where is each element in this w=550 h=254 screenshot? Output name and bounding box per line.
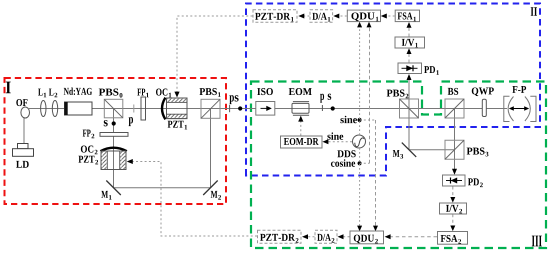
control line cosine up to QDU1 (second ref) bbox=[367, 22, 372, 164]
control line PZT-DR2 to PZT2 bbox=[127, 159, 257, 236]
node cosine (bottom tap) bbox=[358, 161, 362, 165]
laser diode LD bbox=[13, 144, 34, 157]
dashed frame box II (blue) bbox=[246, 4, 540, 176]
dashed frame box III (green) bbox=[251, 82, 546, 249]
label I bbox=[6, 82, 11, 94]
wire: beam M2 up to PBS1 bbox=[210, 109, 212, 188]
fiber coil OF bbox=[21, 107, 30, 118]
polarizing splitter PBS1 bbox=[201, 99, 220, 118]
etalon FP2 bbox=[100, 133, 128, 137]
control line QDU2 to D/A2 bbox=[338, 234, 350, 239]
converter D/A1 bbox=[310, 10, 333, 22]
mirror M2 bbox=[203, 181, 218, 196]
amplifier I/V2 bbox=[440, 203, 467, 214]
polarization tick after PBS0 bbox=[133, 105, 135, 113]
lens L1 bbox=[41, 101, 46, 117]
demodulator QDU2 bbox=[350, 231, 384, 244]
control line FSA2 to QDU2 bbox=[385, 234, 437, 239]
polarizing splitter PBS2 bbox=[400, 99, 419, 118]
control line PD2 to I/V2 bbox=[450, 187, 455, 203]
quarter-wave plate QWP bbox=[482, 99, 486, 116]
wire jog sine tap bbox=[360, 119, 376, 121]
piezo actuator PZT2 bbox=[101, 151, 126, 170]
beam splitter BS bbox=[445, 99, 464, 118]
node dot after PBS1 bbox=[238, 106, 242, 110]
control line PD1 to I/V1 bbox=[407, 48, 412, 62]
driver EOM-DR bbox=[281, 136, 323, 148]
control line D/A1 to PZT-DR1 bbox=[298, 14, 309, 19]
wire: fiber down to LD bbox=[23, 116, 25, 144]
wire: M3 to PBS3 bbox=[409, 149, 455, 151]
converter D/A2 bbox=[315, 230, 337, 243]
node s (dot below PBS0) bbox=[112, 121, 116, 125]
control line I/V1 to FSA1 bbox=[407, 22, 412, 37]
control line FSA1 to QDU1 bbox=[381, 14, 395, 19]
oscillator DDS bbox=[353, 135, 366, 148]
control line I/V2 to FSA2 bbox=[450, 214, 455, 231]
output coupler OC1 bbox=[162, 98, 165, 120]
lens L2 bbox=[52, 101, 57, 117]
gain crystal Nd:YAG bbox=[65, 102, 93, 115]
control line EOM-DR to EOM bbox=[298, 116, 303, 136]
label II bbox=[531, 7, 537, 16]
driver PZT-DR2 bbox=[258, 230, 302, 243]
output coupler OC2 bbox=[100, 148, 126, 152]
control line D/A2 to PZT-DR2 bbox=[302, 234, 315, 239]
wire: s-beam down from PBS0 bbox=[113, 109, 115, 188]
control line PZT-DR1 to PZT1 bbox=[174, 16, 252, 98]
isolator ISO bbox=[256, 102, 275, 116]
demodulator QDU1 bbox=[347, 10, 380, 22]
mirror M1 bbox=[106, 181, 121, 196]
control line DDS cosine down to QDU2 bbox=[357, 148, 362, 231]
polarizing splitter PBS3 bbox=[445, 140, 464, 159]
wire: beam M1 to M2 bbox=[114, 187, 211, 189]
label sine (to EOM-DR) bbox=[327, 132, 343, 139]
wire: PBS2 up to PD1 bbox=[407, 74, 412, 109]
control line sine down to QDU2 (second ref) bbox=[373, 120, 378, 231]
polarizing splitter PBS0 bbox=[104, 99, 123, 118]
amplifier I/V1 bbox=[395, 37, 425, 48]
wire: PBS2 down to M3 bbox=[408, 109, 410, 150]
control line QDU1 to D/A1 bbox=[333, 14, 347, 19]
node sine (top tap) bbox=[358, 118, 362, 122]
piezo actuator PZT1 bbox=[167, 98, 188, 119]
wire: main horizontal beam bbox=[29, 108, 507, 110]
cavity F-P bbox=[504, 96, 536, 121]
filter-servo FSA2 bbox=[438, 232, 468, 245]
polarization tick after EOM bbox=[321, 105, 323, 111]
mirror M3 bbox=[402, 143, 416, 157]
filter-servo FSA1 bbox=[395, 10, 419, 22]
etalon FP1 bbox=[141, 97, 146, 120]
wire jog cosine tap bbox=[360, 162, 370, 164]
label III bbox=[532, 236, 542, 247]
control line DDS sine up to QDU1 bbox=[357, 22, 362, 135]
label p s (after EOM) bbox=[320, 94, 331, 103]
wire: BS down through PBS3 to PD2 bbox=[452, 109, 457, 175]
polarization tick after PBS1 bbox=[229, 105, 231, 112]
photodetector PD1 bbox=[398, 63, 422, 74]
electro-optic modulator EOM bbox=[292, 102, 309, 116]
label p right of PBS0 bbox=[129, 117, 133, 126]
dashed frame box I (red) bbox=[5, 78, 227, 204]
driver PZT-DR1 bbox=[253, 10, 297, 22]
label p s (after PBS1) bbox=[229, 95, 238, 104]
control line DDS sine to EOM-DR bbox=[322, 139, 352, 144]
node dot after EOM bbox=[331, 106, 335, 110]
photodetector PD2 bbox=[443, 175, 466, 186]
